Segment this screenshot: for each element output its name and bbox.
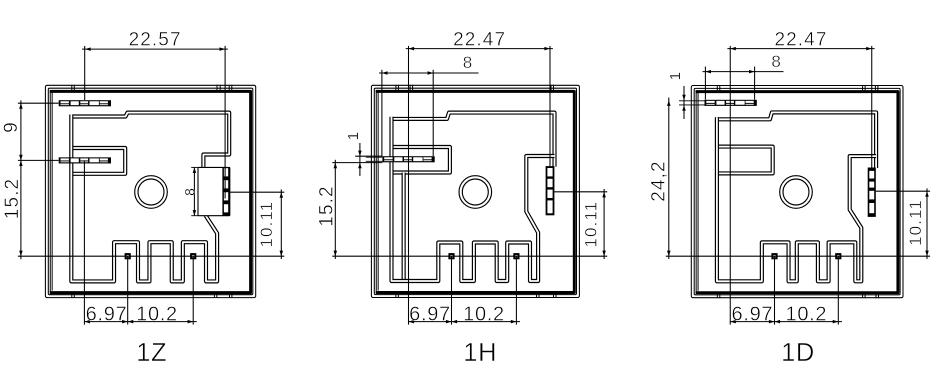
- dim line 22.47 1H: [406, 48, 553, 50]
- dim line 24.2 1D: [668, 98, 670, 260]
- ext lines dim 8 1D: [704, 67, 706, 100]
- bottom ext lines 1H: [451, 256, 453, 324]
- svg-text:1H: 1H: [463, 339, 497, 367]
- ext lines top dim 1H: [408, 46, 410, 325]
- connector mid ext line 1Z: [230, 191, 284, 193]
- top pad row 1D: [705, 100, 757, 106]
- strip mid ext line 1H: [554, 191, 607, 193]
- top trace to right strip 1H: [392, 113, 555, 167]
- dim line 15.2 1H: [334, 160, 336, 259]
- right terminal strip 1H: [546, 166, 555, 215]
- arrows 24.2 1D: [667, 100, 671, 106]
- right terminal strip 1D: [868, 168, 876, 217]
- arrows 10.11 1Z: [280, 192, 284, 198]
- center hole 1D: [780, 176, 813, 209]
- bottom pin pad B 1H: [513, 253, 519, 259]
- bottom pin pad B 1Z: [190, 253, 196, 259]
- svg-text:9: 9: [1, 121, 22, 133]
- case notch ticks bottom 1Z: [71, 292, 73, 298]
- svg-text:10.11: 10.11: [906, 199, 925, 246]
- strip mid ext line 1D: [876, 190, 930, 192]
- svg-text:6.97: 6.97: [732, 304, 774, 326]
- right terminal connector 1Z: [198, 167, 230, 215]
- ext lines dim 1 1H: [355, 155, 382, 157]
- bottom pin pad B 1D: [835, 253, 841, 259]
- arrows 10.11 1D: [925, 191, 929, 197]
- pads level ext line 1Z: [18, 255, 284, 257]
- dim line 10.11 1D: [926, 188, 928, 259]
- top trace to right strip 1D: [717, 112, 876, 168]
- ext lines left dims 1Z: [18, 102, 59, 104]
- slot vertical trace 1H: [402, 173, 406, 282]
- svg-text:10.11: 10.11: [582, 201, 601, 248]
- dim line 10.11 1H: [603, 189, 605, 259]
- coil loop slot trace 1H: [392, 147, 450, 173]
- svg-text:6.97: 6.97: [409, 304, 451, 326]
- coil loop slot trace 1D: [717, 147, 773, 174]
- arrows 8 connector 1Z: [193, 167, 197, 173]
- dim line 8 connector 1Z: [193, 167, 195, 215]
- center hole 1Z: [135, 176, 168, 209]
- lower pad row 1Z: [59, 157, 111, 163]
- dim line bottom 1D: [730, 321, 842, 323]
- arrows 6.97 1Z: [84, 320, 90, 324]
- svg-text:1: 1: [345, 131, 362, 140]
- case notch ticks bottom 1H: [395, 292, 397, 298]
- svg-text:15.2: 15.2: [317, 185, 338, 226]
- ext lines top dim 1D: [729, 46, 731, 325]
- svg-text:8: 8: [463, 53, 474, 72]
- ext lines top dim 1Z: [84, 46, 86, 100]
- arrows 8 1H: [382, 71, 388, 75]
- package outline 1Z: [45, 85, 255, 297]
- dim line 10.11 1Z: [280, 189, 282, 259]
- top trace to right connector 1Z: [71, 113, 229, 169]
- bottom ext lines 1Z: [83, 160, 85, 324]
- svg-text:10.11: 10.11: [257, 201, 276, 248]
- case notch ticks top 1H: [395, 85, 397, 91]
- dim line bottom 1Z: [84, 321, 196, 323]
- stem and heater meander trace 1H: [392, 117, 555, 281]
- arrows 15.2 1H: [334, 163, 338, 169]
- dim line 1 1H: [359, 143, 361, 176]
- case notch ticks top 1Z: [71, 85, 73, 91]
- svg-text:10.2: 10.2: [786, 304, 828, 326]
- svg-text:1Z: 1Z: [136, 339, 167, 367]
- arrows 1 1H: [358, 151, 362, 157]
- svg-text:1: 1: [667, 71, 684, 80]
- arrows 22.47 1D: [730, 47, 736, 51]
- svg-text:22.47: 22.47: [774, 30, 827, 51]
- svg-text:10.2: 10.2: [463, 304, 505, 326]
- svg-text:1D: 1D: [781, 339, 815, 367]
- dim line 22.57 1Z: [82, 48, 228, 50]
- svg-text:22.57: 22.57: [129, 30, 182, 51]
- arrows 10.2 1Z: [128, 320, 134, 324]
- ext lines dim 8 1H: [381, 70, 383, 156]
- bottom pin pad A 1H: [448, 253, 454, 259]
- arrows 22.47 1H: [409, 47, 415, 51]
- stem and heater meander trace 1Z: [71, 115, 217, 282]
- dim line 9 and 15.2 1Z: [20, 100, 22, 259]
- arrows 8 1D: [705, 70, 711, 74]
- svg-text:22.47: 22.47: [453, 30, 506, 51]
- bottom pin pad A 1Z: [125, 253, 131, 259]
- package outline 1D: [691, 86, 903, 298]
- arrows 10.2 1H: [452, 320, 458, 324]
- arrows 6.97 1D: [730, 320, 736, 324]
- dim line 22.47 1D: [727, 48, 874, 50]
- svg-text:6.97: 6.97: [86, 304, 128, 326]
- pads level ext line 1D: [666, 255, 930, 257]
- stem and heater meander trace 1D: [717, 117, 876, 281]
- svg-text:8: 8: [183, 187, 198, 196]
- svg-text:10.2: 10.2: [136, 304, 178, 326]
- arrows 1 1D: [682, 95, 686, 101]
- case notch ticks bottom 1D: [716, 292, 718, 298]
- dim line 8 1D: [703, 71, 784, 73]
- arrows 10.2 1D: [775, 320, 781, 324]
- pads level ext line 1H: [332, 255, 607, 257]
- svg-text:8: 8: [771, 52, 782, 71]
- arrows 22.57 1Z: [85, 47, 91, 51]
- arrows 6.97 1H: [409, 320, 415, 324]
- bottom pin pad A 1D: [771, 253, 777, 259]
- arrows 10.11 1H: [602, 192, 606, 198]
- dim line 8 1H: [379, 72, 479, 74]
- svg-text:24,2: 24,2: [649, 160, 670, 201]
- dim line 1 1D: [683, 86, 685, 119]
- dim line bottom 1H: [409, 321, 521, 323]
- package outline 1H: [371, 85, 579, 297]
- bottom ext lines 1D: [774, 256, 776, 324]
- svg-text:15.2: 15.2: [2, 178, 23, 219]
- coil loop slot trace 1Z: [71, 148, 125, 174]
- center hole 1H: [459, 176, 492, 209]
- pad row 1H: [382, 156, 434, 162]
- case notch ticks top 1D: [716, 85, 718, 91]
- arrows 15.2 1Z: [19, 160, 23, 166]
- arrows 9 1Z: [19, 103, 23, 109]
- upper pad row 1Z: [59, 100, 111, 106]
